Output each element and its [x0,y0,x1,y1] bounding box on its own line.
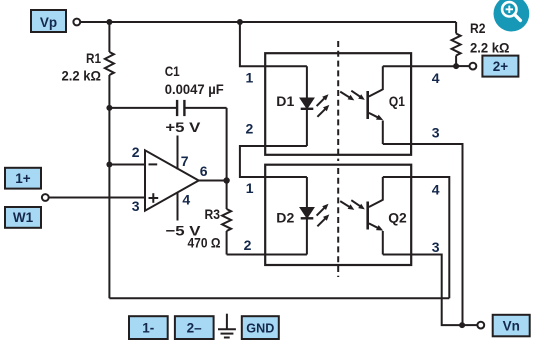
dashed isolation line (upper) [337,41,339,161]
svg-text:Vn: Vn [503,319,520,334]
LED D2 light arrows [317,204,330,227]
optocoupler package U2 (upper) [265,53,411,155]
svg-text:2: 2 [132,144,140,160]
svg-text:GND: GND [246,320,274,335]
svg-text:C1: C1 [165,63,180,79]
resistor R2 [452,22,461,66]
resistor R1 [105,22,114,75]
svg-text:3: 3 [132,198,140,214]
diode D2 [300,177,314,255]
junction: output node [223,177,229,183]
op-amp minus sign [149,163,158,165]
junction: inverting input tap [106,162,112,168]
phototransistor Q2 receive arrows [340,200,365,210]
svg-text:2: 2 [244,237,252,253]
svg-text:1-: 1- [142,321,154,336]
wire: op-amp pin7 supply stub [177,136,179,170]
wire: to 2+ terminal [456,65,469,67]
terminal circle Vn [477,322,484,329]
svg-text:+5 V: +5 V [165,119,201,135]
terminal Vn [493,315,530,337]
wire: op-amp output [199,180,227,182]
svg-text:Q2: Q2 [388,210,407,226]
wire: Q1 collector to R2 node [383,65,456,67]
terminal circle 1+/W1 [42,194,49,201]
junction: R2/pin4/2+ node [453,63,459,69]
op-amp U1 [145,150,199,210]
svg-text:1+: 1+ [15,171,31,186]
svg-text:2.2 kΩ: 2.2 kΩ [470,40,510,56]
wire: left vertical bus (R1 to bottom rail) [108,75,110,298]
wire: op-amp pin2 input [109,164,145,166]
svg-text:Q1: Q1 [389,93,405,109]
resistor R3 [222,181,231,255]
svg-text:1: 1 [246,70,254,86]
svg-text:Vp: Vp [40,15,57,30]
svg-text:1: 1 [246,180,254,196]
svg-text:2.2 kΩ: 2.2 kΩ [62,68,102,84]
wire: C1 left lead [109,107,177,109]
terminal Vp [31,10,66,32]
wire: upper pin2 to lower pin1 link [240,146,307,177]
svg-text:W1: W1 [13,210,34,225]
svg-text:7: 7 [181,153,189,169]
terminal 2+ [482,56,518,77]
svg-text:R2: R2 [470,20,486,36]
junction: rail/R1 [106,19,112,25]
junction: R1/C1 node [106,105,112,111]
svg-text:2–: 2– [187,321,203,336]
svg-text:6: 6 [200,163,208,179]
svg-text:0.0047 µF: 0.0047 µF [165,81,224,97]
wire: op-amp pin4 supply stub [177,192,179,220]
terminal W1 [5,207,41,228]
phototransistor Q2 [366,177,383,255]
svg-text:R3: R3 [205,206,221,222]
svg-text:3: 3 [432,124,440,140]
wire: to Vn terminal [462,324,477,326]
dashed isolation line (lower) [337,168,339,277]
svg-text:R1: R1 [86,50,101,66]
terminal 1- [129,316,168,339]
zoom button [494,0,530,32]
junction: rail/LED feed [237,19,243,25]
ground [218,314,236,338]
terminal 2- [175,316,214,339]
terminal GND [242,316,279,339]
phototransistor Q1 [366,66,383,144]
wire: Q2 emitter pin3 to Vn [383,255,462,326]
svg-text:4: 4 [432,70,440,86]
wire: R3 to lower opto pin2 [227,254,307,256]
wire: bottom rail [109,297,449,299]
junction: Vn node [459,322,465,328]
terminal 1+ [5,168,41,189]
wire: op-amp pin3 input [49,197,145,199]
svg-text:2: 2 [246,121,254,137]
phototransistor Q1 receive arrows [340,91,365,101]
wire: C1 right lead [184,107,226,109]
optocoupler package U3 (lower) [265,165,411,265]
svg-text:2+: 2+ [493,59,509,74]
terminal circle Vp [73,19,80,26]
svg-text:470 Ω: 470 Ω [188,235,221,251]
wire: LED feed down to upper pin1 [240,22,307,66]
svg-text:D1: D1 [276,93,294,109]
capacitor C1 [177,100,184,116]
LED D1 light arrows [317,94,330,117]
wire: Vp top rail [80,21,456,23]
wire: Q1 emitter pin3 to Vn bus [383,144,463,325]
svg-text:4: 4 [432,181,440,197]
wire: Q2 collector pin4 to bottom rail [383,177,450,298]
op-amp plus sign [149,193,159,203]
svg-text:D2: D2 [276,210,294,226]
terminal circle 2+ [470,63,477,70]
svg-text:4: 4 [182,191,190,207]
svg-text:3: 3 [432,239,440,255]
wire: feedback vertical to output node [226,108,228,181]
diode D1 [300,66,314,146]
